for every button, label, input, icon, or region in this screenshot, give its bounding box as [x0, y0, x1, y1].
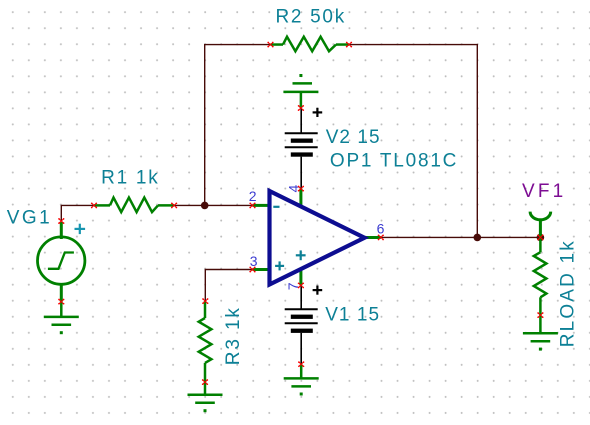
op-amp OP1 supply lead pin 4 — [299, 189, 302, 207]
terminal marker R3 bottom — [202, 379, 208, 385]
battery V1 — [285, 285, 318, 364]
resistor R1 — [94, 198, 174, 213]
ground below R3 — [188, 382, 223, 403]
node A junction dot (R1/R2/pin2) — [201, 202, 209, 210]
terminal marker pin 6 — [378, 234, 384, 240]
flipped ground above V2 — [283, 83, 318, 108]
terminal marker R1 left — [91, 202, 97, 208]
terminal marker RLOAD bottom — [537, 312, 543, 318]
terminal marker R2 left — [267, 42, 273, 48]
terminal marker pin 4 — [298, 186, 304, 192]
svg-text:OP1 TL081C: OP1 TL081C — [330, 150, 457, 171]
V1 plus sign — [313, 286, 323, 295]
wire pin 3 to R3 — [205, 270, 252, 302]
op-amp U1 triangle body — [270, 191, 365, 285]
terminal marker pin 7 — [298, 282, 304, 288]
op-amp OP1 input lead pin 3 — [253, 268, 269, 271]
terminal marker V1 bottom — [298, 361, 304, 367]
op-amp minus symbol — [273, 206, 279, 208]
ground below VG1 — [44, 302, 79, 325]
op-amp plus symbol (pin 3) — [275, 261, 284, 270]
op-amp OP1 input lead pin 2 — [253, 204, 269, 207]
svg-text:2: 2 — [249, 188, 257, 204]
terminal marker R1 right — [171, 202, 177, 208]
wire VG1 top to R1 — [61, 205, 94, 221]
battery V2 — [285, 108, 318, 189]
svg-text:3: 3 — [250, 253, 258, 269]
voltage source VG1 — [38, 222, 85, 302]
node VF1/RLOAD junction dot — [537, 234, 545, 242]
terminal marker V2 top — [298, 105, 304, 111]
VG1 plus sign — [75, 224, 86, 234]
svg-text:V1 15: V1 15 — [325, 305, 379, 326]
op-amp OP1 supply lead pin 7 — [299, 268, 302, 285]
svg-text:V2 15: V2 15 — [326, 127, 380, 148]
ground below V1 — [284, 364, 319, 386]
terminal marker VG1 bottom — [58, 299, 64, 305]
resistor R3 — [199, 301, 212, 382]
terminal marker pin 2 — [249, 202, 255, 208]
node OUT junction dot — [474, 234, 482, 242]
svg-text:R1 1k: R1 1k — [101, 167, 158, 188]
svg-text:R3 1k: R3 1k — [223, 308, 244, 366]
terminal marker pin 3 — [249, 267, 255, 273]
wire feedback left vertical to R2 — [205, 45, 271, 206]
op-amp OP1 output lead pin 6 — [363, 236, 381, 239]
svg-text:RLOAD 1k: RLOAD 1k — [558, 241, 579, 348]
op-amp plus symbol (center) — [296, 250, 306, 260]
svg-text:VF1: VF1 — [522, 181, 563, 202]
wire R1 to op-amp pin 2 — [174, 204, 252, 206]
wire R2 to output node — [349, 45, 477, 238]
resistor RLOAD — [534, 237, 547, 315]
terminal marker R3 top — [202, 298, 208, 304]
terminal marker VG1 top — [58, 218, 64, 224]
svg-text:VG1: VG1 — [7, 208, 50, 229]
resistor R2 — [271, 37, 350, 52]
ground below RLOAD — [523, 315, 558, 341]
V2 plus sign — [313, 108, 323, 117]
svg-text:6: 6 — [377, 221, 385, 237]
terminal marker R2 right — [346, 42, 352, 48]
terminal marker RLOAD top / VF1 — [537, 234, 543, 240]
svg-text:R2 50k: R2 50k — [276, 6, 345, 27]
voltage probe VF1 — [530, 212, 551, 220]
wire pin 6 to RLOAD node — [381, 236, 541, 238]
